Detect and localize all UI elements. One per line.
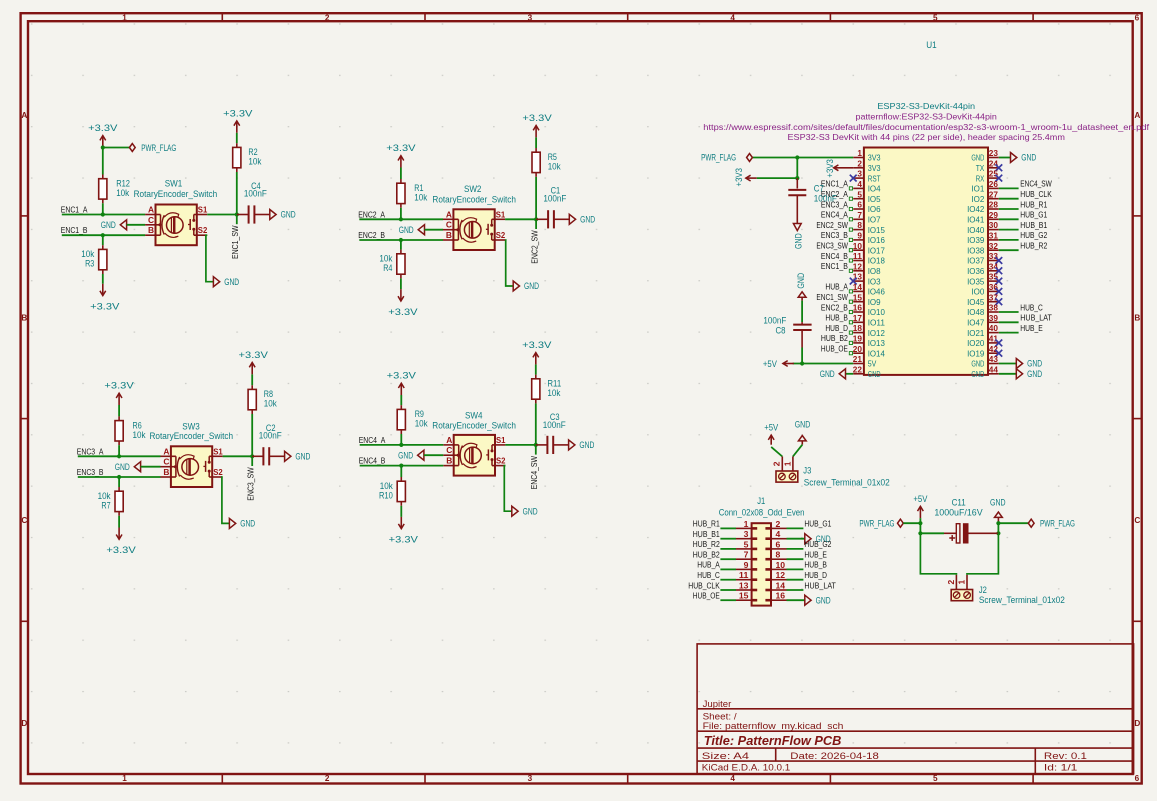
SW4 pin S2: [492, 465, 505, 467]
svg-text:6: 6: [1135, 13, 1140, 22]
svg-text:PWR_FLAG: PWR_FLAG: [701, 152, 736, 163]
wire: [400, 168, 402, 180]
wire: [78, 476, 161, 478]
J1 pin 5: [736, 548, 752, 550]
svg-text:ENC1_A: ENC1_A: [821, 180, 848, 189]
J1 pin 1: [736, 527, 752, 529]
wire: [236, 172, 238, 215]
svg-text:A: A: [446, 209, 452, 219]
SW3 pin S1: [209, 455, 222, 457]
svg-text:5: 5: [857, 189, 862, 199]
wire: [360, 465, 444, 467]
junction: [918, 531, 922, 535]
svg-text:IO46: IO46: [868, 287, 885, 297]
wire: [102, 274, 104, 284]
SW4 rotation arrow top: [462, 443, 477, 448]
svg-text:2: 2: [325, 13, 330, 22]
svg-text:HUB_E: HUB_E: [804, 551, 827, 560]
wire: [359, 218, 443, 220]
svg-text:RotaryEncoder_Switch: RotaryEncoder_Switch: [432, 421, 516, 431]
SW1 switch contacts: [193, 215, 195, 221]
svg-text:3V3: 3V3: [868, 153, 881, 163]
svg-text:IO7: IO7: [868, 215, 881, 225]
svg-text:+3.3V: +3.3V: [104, 381, 134, 392]
resistor R5 (10k): [535, 148, 537, 152]
svg-text:38: 38: [989, 303, 999, 313]
ESP32 module U1 body: [864, 148, 988, 375]
svg-text:R10: R10: [379, 490, 393, 500]
svg-text:ENC3_SW: ENC3_SW: [816, 242, 848, 251]
GND power symbol below C7: [793, 224, 801, 231]
svg-text:IO45: IO45: [967, 297, 984, 307]
U1 pin 23 (GND): [988, 157, 999, 159]
svg-text:5: 5: [933, 13, 938, 22]
svg-text:ENC4_B: ENC4_B: [359, 457, 386, 466]
U1 pin 39 (IO47): [988, 321, 999, 323]
no-connect X at U1 pin 3: [850, 175, 857, 182]
svg-text:IO14: IO14: [868, 348, 885, 358]
+5V power symbol above J3: [770, 435, 772, 445]
SW2 switch contacts: [491, 219, 493, 225]
svg-text:12: 12: [776, 570, 786, 580]
resistor R10 (10k): [400, 477, 402, 481]
svg-text:10k: 10k: [547, 388, 561, 398]
svg-text:IO41: IO41: [967, 215, 984, 225]
SW1 pin B: [145, 234, 160, 236]
wire: [141, 466, 161, 468]
junction: [101, 233, 105, 237]
svg-text:HUB_G1: HUB_G1: [804, 520, 831, 529]
U1 pin 21 (5V): [853, 363, 864, 365]
svg-text:GND: GND: [990, 498, 1006, 508]
SW2 rotation arrow top: [462, 218, 477, 223]
svg-text:ENC2_B: ENC2_B: [358, 231, 385, 240]
wire: [400, 506, 402, 517]
SW4 pin C: [443, 454, 458, 456]
resistor R8 (10k): [251, 385, 253, 389]
wire: [787, 527, 804, 529]
svg-text:Date: 2026-04-18: Date: 2026-04-18: [790, 751, 879, 761]
svg-text:ENC2_SW: ENC2_SW: [816, 221, 848, 230]
junction: [399, 443, 403, 447]
SW3 pin B: [161, 476, 176, 478]
GND power symbol above C11 rail: [995, 512, 1003, 517]
svg-text:4: 4: [857, 179, 862, 189]
svg-text:TX: TX: [976, 163, 985, 173]
wire at U1 pin 29: [999, 218, 1019, 220]
svg-text:ENC2_A: ENC2_A: [358, 210, 385, 219]
svg-text:17: 17: [853, 313, 863, 323]
svg-text:15: 15: [853, 292, 863, 302]
svg-text:File: patternflow_my.kicad_sch: File: patternflow_my.kicad_sch: [703, 721, 844, 731]
resistor R3 (10k): [102, 245, 104, 249]
svg-text:R11: R11: [547, 379, 561, 389]
SW2 rotation arrow bottom: [463, 238, 477, 242]
wire: [400, 434, 402, 445]
no-connect X at U1 pin 42: [995, 350, 1002, 357]
svg-text:R9: R9: [415, 409, 424, 419]
wire: [400, 208, 402, 220]
svg-text:+3.3V: +3.3V: [388, 307, 418, 318]
svg-text:A: A: [148, 205, 154, 215]
SW3 pin C: [161, 466, 176, 468]
SW2 pin S1: [492, 218, 505, 220]
SW1 switch lever: [189, 219, 191, 230]
wire: [787, 579, 804, 581]
SW2 pin S2: [492, 239, 505, 241]
SW3 switch lever: [205, 461, 207, 472]
svg-text:ENC1_SW: ENC1_SW: [231, 225, 240, 259]
svg-text:Id: 1/1: Id: 1/1: [1044, 762, 1078, 772]
svg-text:GND: GND: [1027, 369, 1042, 380]
GND label at S2: [512, 506, 518, 516]
junction: [534, 217, 538, 221]
svg-text:C: C: [446, 445, 452, 455]
junction: [795, 155, 799, 159]
wire: [720, 548, 736, 550]
svg-text:100nF: 100nF: [259, 431, 283, 441]
svg-text:PWR_FLAG: PWR_FLAG: [141, 142, 176, 153]
svg-text:Size: A4: Size: A4: [702, 751, 749, 761]
SW4 pin B: [443, 465, 458, 467]
wire at U1 pin 30: [999, 229, 1019, 231]
svg-text:HUB_CLK: HUB_CLK: [688, 581, 720, 590]
resistor R7 (10k): [118, 487, 120, 491]
svg-text:7: 7: [744, 550, 749, 560]
GND label at J1 pin 4: [787, 538, 805, 540]
wire: [796, 158, 798, 179]
rotary encoder switch SW3 body: [171, 446, 212, 487]
svg-text:4: 4: [776, 529, 781, 539]
wire: [801, 348, 803, 364]
SW4 pin S1: [492, 444, 505, 446]
svg-text:GND: GND: [795, 419, 811, 429]
svg-text:HUB_OE: HUB_OE: [821, 345, 848, 354]
SW3 switch contacts: [208, 456, 210, 462]
capacitor C8 (100nF): [801, 322, 803, 325]
+3.3V power symbol above R8: [251, 363, 253, 375]
svg-text:44: 44: [989, 364, 999, 374]
svg-text:ENC2_B: ENC2_B: [821, 303, 848, 312]
wire: [720, 527, 736, 529]
SW2 switch lever: [487, 224, 489, 235]
svg-text:+3.3V: +3.3V: [223, 108, 253, 119]
SW3 pin S2: [209, 476, 222, 478]
wire: [62, 234, 145, 236]
rotary encoder switch SW1 body: [156, 205, 197, 246]
svg-text:HUB_R1: HUB_R1: [1020, 200, 1047, 209]
GND label at U1 pin 22: [846, 373, 854, 375]
SW2 pin B: [443, 239, 458, 241]
title block frame: [697, 644, 1134, 774]
GND power symbol above C8: [798, 292, 806, 297]
svg-text:IO16: IO16: [868, 235, 885, 245]
svg-text:10k: 10k: [414, 192, 428, 202]
svg-text:S1: S1: [213, 446, 223, 456]
SW3 pin A: [161, 455, 176, 457]
svg-text:15: 15: [739, 591, 749, 601]
J1 pin 13: [736, 589, 752, 591]
svg-text:ESP32-S3-DevKit-44pin: ESP32-S3-DevKit-44pin: [877, 102, 975, 111]
svg-text:1: 1: [744, 519, 749, 529]
U1 pin 38 (IO48): [988, 311, 999, 313]
wire: [535, 364, 537, 374]
svg-text:HUB_G2: HUB_G2: [804, 540, 831, 549]
svg-text:10: 10: [776, 560, 786, 570]
svg-text:GND: GND: [794, 233, 805, 249]
SW1 pin A: [145, 214, 160, 216]
svg-text:HUB_D: HUB_D: [825, 324, 848, 333]
GND label at J1 pin 16: [787, 599, 805, 601]
+3.3V power symbol top left of SW4: [400, 383, 402, 395]
U1 pin 32 (IO38): [988, 249, 999, 251]
svg-text:5V: 5V: [868, 359, 877, 369]
svg-text:GND: GND: [1021, 153, 1036, 164]
svg-text:SW2: SW2: [464, 184, 482, 194]
U1 pin 16 (IO10): [853, 311, 864, 313]
svg-text:S2: S2: [198, 225, 208, 235]
U1 pin 40 (IO21): [988, 332, 999, 334]
svg-text:4: 4: [730, 774, 735, 783]
svg-text:GND: GND: [579, 440, 594, 451]
U1 pin 3 (RST): [853, 177, 864, 179]
capacitor C3 (100nF): [536, 444, 548, 446]
svg-text:100nF: 100nF: [543, 193, 567, 203]
svg-text:IO8: IO8: [868, 266, 881, 276]
svg-text:8: 8: [857, 220, 862, 230]
no-connect X at U1 pin 35: [995, 278, 1002, 285]
svg-text:26: 26: [989, 179, 999, 189]
svg-text:IO5: IO5: [868, 194, 881, 204]
wire: [424, 454, 443, 456]
svg-text:6: 6: [857, 200, 862, 210]
wire: [103, 147, 130, 149]
wire stub: [535, 445, 537, 455]
svg-text:+5V: +5V: [764, 423, 778, 434]
U1 pin 36 (IO0): [988, 290, 999, 292]
svg-text:R5: R5: [548, 152, 557, 162]
svg-text:19: 19: [853, 334, 863, 344]
U1 pin 42 (IO19): [988, 352, 999, 354]
SW1 rotation arrow top: [164, 213, 179, 218]
svg-text:GND: GND: [281, 210, 296, 221]
no-connect X at U1 pin 24: [995, 164, 1002, 171]
SW1 left bracket: [160, 215, 162, 236]
svg-text:S2: S2: [496, 456, 506, 466]
SW2 knob circle: [464, 222, 481, 239]
svg-text:1: 1: [122, 13, 127, 22]
U1 pin 30 (IO40): [988, 229, 999, 231]
svg-text:HUB_G2: HUB_G2: [1020, 231, 1047, 240]
svg-text:ESP32-S3 DevKit with 44 pins (: ESP32-S3 DevKit with 44 pins (22 per sid…: [788, 133, 1066, 142]
svg-text:C: C: [1134, 516, 1140, 525]
wire at U1 pin 28: [999, 208, 1019, 210]
svg-text:IO9: IO9: [868, 297, 881, 307]
svg-text:Rev: 0.1: Rev: 0.1: [1044, 751, 1087, 761]
svg-text:HUB_B1: HUB_B1: [1020, 221, 1047, 230]
svg-text:HUB_R2: HUB_R2: [1020, 242, 1047, 251]
wire: [118, 445, 120, 456]
svg-text:IO15: IO15: [868, 225, 885, 235]
svg-text:IO40: IO40: [967, 225, 984, 235]
svg-text:21: 21: [853, 354, 863, 364]
wire at U1 pin 32: [999, 249, 1019, 251]
svg-text:+3.3V: +3.3V: [389, 535, 419, 546]
svg-text:ENC4_A: ENC4_A: [821, 211, 848, 220]
SW3 shaft flats: [186, 460, 188, 475]
svg-text:+3.3V: +3.3V: [522, 113, 552, 124]
wire: [400, 395, 402, 405]
wire stub: [251, 456, 253, 466]
svg-text:1: 1: [857, 148, 862, 158]
U1 pin 43 (GND): [988, 363, 999, 365]
+3V3 power symbol (left): [746, 177, 757, 179]
SW1 pin C: [145, 224, 160, 226]
svg-text:10k: 10k: [380, 481, 394, 491]
svg-text:3: 3: [857, 169, 862, 179]
svg-text:A: A: [163, 446, 169, 456]
svg-text:C: C: [148, 215, 154, 225]
screw terminal J2 body: [951, 590, 972, 601]
svg-text:R3: R3: [85, 259, 94, 269]
svg-text:1000uF/16V: 1000uF/16V: [934, 508, 982, 518]
svg-text:C7: C7: [814, 183, 824, 193]
U1 pin 5 (IO5): [853, 198, 864, 200]
svg-text:39: 39: [989, 313, 999, 323]
J2 screw 2: [953, 592, 960, 599]
svg-text:14: 14: [776, 580, 786, 590]
wire: [400, 240, 402, 250]
svg-text:27: 27: [989, 189, 999, 199]
svg-text:2: 2: [772, 461, 782, 466]
svg-text:SW1: SW1: [165, 178, 183, 188]
U1 pin 31 (IO39): [988, 239, 999, 241]
svg-text:R6: R6: [133, 420, 142, 430]
svg-text:+3V3: +3V3: [825, 159, 836, 178]
svg-text:GND: GND: [524, 281, 539, 292]
junction: [117, 475, 121, 479]
svg-text:12: 12: [853, 261, 863, 271]
svg-text:ENC1_B: ENC1_B: [61, 226, 88, 235]
svg-text:+3.3V: +3.3V: [387, 371, 417, 382]
J1 pin 16: [771, 599, 787, 601]
wire: [720, 538, 736, 540]
svg-text:GND: GND: [868, 369, 881, 379]
svg-text:30: 30: [989, 220, 999, 230]
wire: [787, 548, 804, 550]
SW1 detent arc: [162, 215, 164, 234]
wire stub: [535, 219, 537, 229]
svg-text:1: 1: [782, 461, 792, 466]
svg-text:B: B: [163, 467, 169, 477]
SW4 detent arc: [460, 446, 462, 465]
svg-text:GND: GND: [796, 273, 807, 289]
svg-text:patternflow:ESP32-S3-DevKit-44: patternflow:ESP32-S3-DevKit-44pin: [856, 112, 998, 121]
svg-text:GND: GND: [971, 359, 984, 369]
SW3 left bracket: [175, 456, 177, 477]
SW3 rotation arrow bottom: [180, 475, 194, 479]
svg-text:1: 1: [956, 580, 966, 585]
J1 pin 14: [771, 589, 787, 591]
GND label at S2: [229, 518, 235, 528]
SW1 rotation arrow bottom: [165, 233, 179, 237]
wire: [207, 214, 237, 216]
resistor R12 (10k): [102, 175, 104, 179]
svg-text:+3.3V: +3.3V: [90, 301, 120, 312]
SW2 left bracket: [457, 219, 459, 240]
svg-text:+3.3V: +3.3V: [106, 545, 136, 556]
wire: [118, 516, 120, 528]
U1 pin 26 (IO1): [988, 187, 999, 189]
+5V power symbol at U1 pin 21: [783, 363, 794, 365]
svg-text:GND: GND: [240, 519, 255, 530]
J1 pin 4: [771, 538, 787, 540]
svg-text:C: C: [446, 220, 452, 230]
resistor R1 (10k): [400, 179, 402, 183]
svg-text:D: D: [21, 719, 27, 728]
svg-text:ENC3_A: ENC3_A: [77, 447, 104, 456]
U1 pin 33 (IO37): [988, 260, 999, 262]
junction: [399, 238, 403, 242]
svg-text:28: 28: [989, 200, 999, 210]
svg-text:2: 2: [325, 774, 330, 783]
resistor R4 (10k): [400, 250, 402, 254]
svg-text:HUB_B: HUB_B: [825, 314, 848, 323]
SW3 detent arc: [177, 457, 179, 476]
GND label right of C1: [569, 214, 575, 224]
J1 pin 2: [771, 527, 787, 529]
svg-text:10: 10: [853, 241, 863, 251]
junction: [101, 145, 105, 149]
SW1 knob circle: [167, 217, 184, 234]
svg-text:2: 2: [946, 580, 956, 585]
svg-text:9: 9: [744, 560, 749, 570]
+3V3 power symbol at U1 pin 2: [834, 167, 854, 169]
+3.3V power symbol bottom of SW2: [400, 289, 402, 301]
svg-text:B: B: [21, 314, 27, 323]
svg-text:IO3: IO3: [868, 276, 881, 286]
svg-text:+5V: +5V: [763, 359, 777, 370]
+3.3V power symbol top left of SW2: [400, 156, 402, 168]
svg-text:3: 3: [528, 13, 533, 22]
SW4 rotation arrow bottom: [463, 464, 477, 468]
svg-text:B: B: [446, 230, 452, 240]
svg-text:IO20: IO20: [967, 338, 984, 348]
svg-text:10k: 10k: [116, 188, 130, 198]
U1 pin 8 (IO15): [853, 229, 864, 231]
svg-text:IO6: IO6: [868, 204, 881, 214]
svg-text:IO0: IO0: [971, 287, 984, 297]
J3 screw 1: [789, 473, 796, 480]
wire: [505, 444, 535, 446]
svg-text:PWR_FLAG: PWR_FLAG: [859, 518, 894, 529]
wire: [720, 599, 736, 601]
svg-text:9: 9: [857, 231, 862, 241]
svg-text:+5V: +5V: [913, 494, 927, 505]
C11 plus sign: [949, 537, 955, 539]
junction: [996, 531, 1000, 535]
SW3 knob circle: [182, 459, 199, 476]
svg-text:GND: GND: [295, 452, 310, 463]
no-connect X at U1 pin 37: [995, 298, 1002, 305]
svg-text:A: A: [446, 435, 452, 445]
+3.3V power symbol top left of SW1: [102, 136, 104, 148]
junction: [534, 443, 538, 447]
svg-text:R4: R4: [383, 263, 392, 273]
svg-text:B: B: [446, 456, 452, 466]
wire: [505, 218, 536, 220]
U1 pin 14 (IO46): [853, 290, 864, 292]
